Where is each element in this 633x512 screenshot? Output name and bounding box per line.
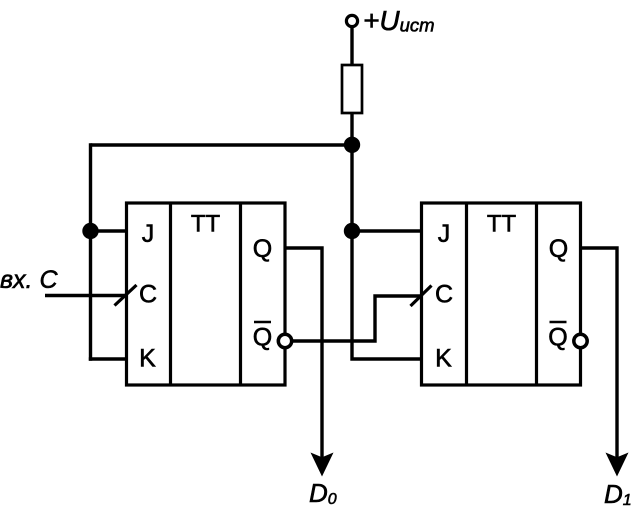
svg-text:вх. С: вх. С (0, 266, 58, 294)
junction dot: centre bus / J input of U2 (344, 223, 360, 239)
wire: clock input вх.C to U1 (45, 294, 128, 297)
svg-text:C: C (435, 281, 453, 309)
svg-text:J: J (438, 220, 451, 248)
svg-text:D0: D0 (309, 478, 337, 508)
svg-text:J: J (142, 220, 155, 248)
U2 dynamic input slash on C (411, 286, 432, 307)
arrowhead D1 (606, 453, 629, 477)
junction dot: resistor bottom / top branch (344, 137, 360, 153)
svg-text:TT: TT (191, 211, 221, 238)
U1 divider right (239, 203, 242, 385)
svg-text:Q: Q (549, 235, 568, 263)
U2 divider right (535, 203, 538, 385)
flip-flop U2 body (422, 203, 581, 385)
resistor R1 (342, 65, 362, 113)
U2 inversion circle on Q-bar (574, 334, 587, 347)
svg-text:D1: D1 (604, 479, 632, 509)
wire: Q of U1 down to D0 arrow (284, 248, 322, 458)
svg-text:K: K (435, 345, 452, 373)
U1 Q-bar overbar (254, 321, 271, 324)
wire: J input of U2 (352, 229, 423, 232)
wire: top branch left (supply to left bus) (91, 143, 353, 146)
wire: terminal to resistor R1 (350, 25, 353, 67)
wire: J input of U1 (91, 229, 129, 232)
svg-text:TT: TT (487, 211, 517, 238)
flip-flop U1 body (127, 203, 286, 385)
junction dot: left bus / J input of U1 (82, 223, 98, 239)
U2 divider left (465, 203, 468, 385)
terminal +Uист (346, 15, 357, 26)
wire: Q of U2 down to D1 arrow (579, 248, 617, 458)
wire: K input of U1 (89, 357, 128, 360)
svg-text:Q: Q (548, 324, 567, 352)
U2 Q-bar overbar (550, 321, 567, 324)
U1 divider left (169, 203, 172, 385)
U1 dynamic input slash on C (115, 285, 137, 306)
svg-text:+Uист: +Uист (363, 5, 435, 36)
svg-text:Q: Q (253, 324, 272, 352)
svg-text:Q: Q (253, 235, 272, 263)
svg-text:K: K (139, 345, 156, 373)
wire: Q-bar of U1 to C of U2 (step) (292, 296, 424, 341)
wire: left bus vertical (89, 143, 92, 360)
svg-text:C: C (139, 281, 157, 309)
wire: centre supply bus (resistor to K-level corner) (352, 111, 422, 359)
U1 inversion circle on Q-bar (278, 334, 291, 347)
arrowhead D0 (311, 453, 334, 477)
